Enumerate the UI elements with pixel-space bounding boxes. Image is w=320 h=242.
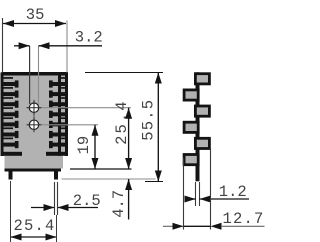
dim 55.5 line: [157, 73, 159, 182]
svg-text:19: 19: [75, 136, 93, 155]
hole 2 crosshair: [27, 124, 42, 126]
hole 1 centerline horizontal (extends to 25.4 dim): [27, 107, 132, 109]
dim 3.2 left tail: [14, 45, 30, 47]
dim 12.7 extension lines: [183, 158, 185, 230]
dim 19 bottom arrow: [92, 158, 99, 169]
side view tab R3: [194, 137, 211, 150]
dim 2.5 left arrow: [44, 204, 55, 211]
bottom dim 25.4 left extension: [10, 181, 12, 242]
hole 1: [29, 103, 38, 112]
dim 12.7 right tail: [222, 225, 265, 227]
bottom dim 25.4 right arrow: [46, 234, 57, 241]
side view tab R1: [194, 72, 211, 85]
left fins: [1, 77, 23, 156]
dim 12.7 middle line: [184, 225, 211, 227]
left fin wall: [1, 73, 4, 157]
dim 19 top arrow: [92, 125, 99, 136]
dim 1.2 left tail: [187, 198, 196, 200]
dim 1.2 left arrow: [185, 196, 196, 203]
dim 3.2 left arrow: [19, 42, 30, 49]
svg-text:3.2: 3.2: [75, 28, 103, 46]
dim 55.5 top extension: [85, 72, 163, 74]
dim 25.4 top arrow: [125, 108, 132, 119]
dim 2.5 left tail: [31, 207, 55, 209]
dim 55.5 bottom arrow: [155, 171, 162, 182]
side view tab L2: [183, 121, 200, 134]
right fin divider: [58, 73, 61, 156]
dim 35 right arrow: [55, 20, 66, 27]
dim 25.4 bottom arrow: [125, 158, 132, 169]
dim 2.5 right arrow: [58, 204, 69, 211]
hole tangent extension right: [38, 46, 40, 105]
bottom dim 25.4 right extension: [56, 215, 58, 242]
dim 4.7 up arrow: [125, 179, 132, 190]
dim 2.5 right line: [58, 207, 99, 209]
dim 55.5 top arrow: [155, 73, 162, 84]
hole tangent extension left: [29, 46, 31, 104]
hole 2 centerline horizontal (extends to 19 dim): [27, 124, 99, 126]
svg-text:55.5: 55.5: [139, 99, 157, 141]
side view tab L1: [183, 89, 200, 102]
svg-text:1.2: 1.2: [219, 183, 247, 201]
dim 35 left arrow: [3, 20, 14, 27]
side view stem: [196, 72, 200, 181]
heatsink body front view gray: [2, 73, 69, 169]
hole 2: [29, 120, 38, 129]
svg-text:35: 35: [26, 6, 45, 24]
dim 12.7 left arrow: [173, 223, 184, 230]
heatsink top edge: [2, 72, 69, 76]
dim 35 right extension: [66, 21, 68, 73]
dim 2.5 extension lines: [54, 182, 56, 215]
right fin wall: [65, 73, 68, 157]
hole centerline vertical: [33, 100, 35, 132]
dim 19 line: [94, 125, 96, 169]
bottom dim 25.4 line: [11, 236, 57, 238]
dim 1.2 right line: [199, 198, 249, 200]
dim 35 line: [3, 23, 66, 25]
right leg: [54, 170, 58, 180]
left leg: [9, 170, 13, 180]
bottom dim 25.4 left arrow: [11, 234, 22, 241]
dim 1.2 extension lines (stem edges): [195, 182, 197, 206]
svg-text:4.7: 4.7: [110, 190, 128, 218]
dim 4.7 lower line: [128, 179, 130, 220]
line C leg bottom reference (gray): [62, 178, 156, 180]
dim 3.2 right arrow: [39, 42, 50, 49]
bottom channel bar: [5, 169, 62, 172]
dim 25.4 line: [128, 108, 130, 169]
side view tab R2: [194, 105, 211, 118]
right fins: [46, 77, 68, 156]
side view tab L3: [183, 153, 200, 166]
line B bottom reference: [70, 168, 132, 170]
svg-text:12.7: 12.7: [223, 210, 265, 228]
dim 35 left extension: [2, 18, 4, 73]
svg-text:25.4: 25.4: [14, 217, 56, 235]
dim 55.5 bottom extension: [145, 181, 163, 183]
dim 12.7 right arrow: [211, 223, 222, 230]
dim 3.2 right line: [39, 45, 103, 47]
dim 12.7 left tail: [163, 225, 184, 227]
dim 1.2 right arrow: [200, 196, 211, 203]
hole 1 crosshair: [27, 107, 42, 109]
